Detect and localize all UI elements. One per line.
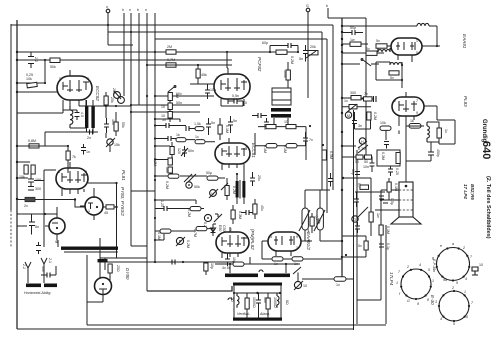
svg-text:G: G: [407, 299, 410, 303]
capacitor 10n bus bottom: [363, 157, 375, 172]
capacitor hablkg: [41, 266, 56, 278]
svg-text:0,7M: 0,7M: [167, 58, 175, 62]
resistor 500k vert: [283, 62, 290, 88]
wire bus y60: [17, 59, 232, 61]
resistor 300 bus2: [342, 91, 371, 100]
antenna arrow sym1: [22, 262, 31, 283]
svg-text:E-P-40: E-P-40: [432, 259, 436, 270]
svg-text:ECC92: ECC92: [95, 86, 100, 101]
node terminal G: [306, 8, 310, 12]
capacitor y140: [163, 136, 176, 141]
wire VDR bottom: [301, 230, 342, 241]
svg-text:1: 1: [396, 281, 398, 285]
wire eaa912 drop: [262, 241, 291, 259]
svg-text:10k: 10k: [26, 77, 32, 81]
svg-text:55k: 55k: [121, 122, 125, 128]
capacitor 50n variable: [181, 146, 194, 157]
svg-text:0,7: 0,7: [357, 183, 361, 188]
wire stub y45: [108, 44, 133, 46]
yoke H bars small: [26, 284, 57, 288]
wire row6: [155, 224, 216, 231]
transformer T1 core bars: [85, 100, 95, 134]
capacitor below box: [388, 166, 399, 176]
coil eaa91 left: [378, 48, 390, 52]
svg-text:50p: 50p: [350, 26, 356, 30]
svg-text:1w: 1w: [350, 38, 355, 42]
coil L-top-right: [417, 23, 429, 26]
svg-text:10x: 10x: [176, 92, 182, 96]
svg-text:B52;R6: B52;R6: [470, 184, 475, 200]
wire x227 drop to tube: [227, 52, 228, 68]
transformer T3 bars: [236, 170, 246, 204]
svg-text:640: 640: [480, 141, 492, 159]
resistor 50k top-left: [50, 58, 60, 69]
wire vert bus v1: [123, 13, 125, 96]
resistor 0.7M vert row4: [225, 186, 236, 196]
svg-text:300: 300: [350, 91, 356, 95]
capacitor small y128: [186, 126, 195, 131]
wire y240 row: [155, 234, 164, 240]
wire x116 drop: [116, 183, 118, 258]
wire right inner frame x353: [353, 110, 355, 330]
svg-text:1x: 1x: [336, 283, 340, 287]
resistor oval 1x: [195, 135, 205, 144]
wire row y140 links: [155, 139, 215, 142]
wire row4 links: [218, 178, 228, 200]
potentiometer 20k circles: [112, 88, 124, 103]
resistor 1500 vbox a: [245, 293, 256, 318]
potentiometer 15k: [106, 138, 120, 147]
capacitor C17: [81, 144, 90, 155]
svg-text:50: 50: [355, 160, 359, 164]
svg-text:9: 9: [59, 77, 61, 81]
resistor 0.2M oval row6: [193, 227, 207, 238]
svg-text:4: 4: [419, 263, 421, 267]
wire speaker col x381: [380, 195, 382, 300]
wire output transformer loop: [406, 106, 455, 144]
svg-text:40n: 40n: [41, 266, 45, 272]
svg-text:1,5k: 1,5k: [194, 122, 201, 126]
flyback core bar B: [264, 274, 290, 278]
wire pl81 to x116: [88, 182, 117, 184]
svg-text:5x: 5x: [358, 244, 362, 248]
wire stub x381 bottom: [357, 299, 381, 301]
svg-text:10: 10: [303, 284, 307, 288]
capacitor 0.5u b: [383, 198, 394, 205]
wire top right feed: [342, 25, 417, 27]
svg-text:2,1: 2,1: [48, 258, 52, 263]
potentiometer 0.2M row5: [203, 214, 222, 230]
svg-text:h: h: [122, 8, 124, 12]
wire x68 down: [67, 146, 69, 173]
svg-text:50μ: 50μ: [206, 171, 212, 175]
wire x371 col: [370, 178, 372, 212]
SECTION: tubes: [49, 38, 440, 300]
wire bottom inner line: [87, 324, 386, 326]
svg-text:300: 300: [35, 187, 41, 191]
resistor 0.2M right col: [367, 112, 377, 120]
yoke H coil bar: [61, 247, 118, 253]
svg-text:Vertikal-: Vertikal-: [237, 312, 251, 316]
svg-text:4: 4: [465, 277, 467, 281]
svg-text:50k: 50k: [50, 65, 56, 69]
potentiometer 20k pcf: [306, 45, 318, 58]
svg-text:2: 2: [245, 76, 247, 80]
diode E50C50: [211, 224, 227, 236]
wire cascade right vertical 3: [326, 39, 328, 213]
flyback link arcs: [228, 270, 263, 300]
svg-text:9: 9: [296, 235, 298, 239]
svg-text:n: n: [129, 8, 131, 12]
capacitor right col c: [355, 222, 360, 233]
tube ECC81 upper envelope: [214, 68, 250, 106]
wire y178 right: [343, 177, 371, 179]
svg-text:8: 8: [217, 145, 219, 149]
resistor 50k oval row4: [165, 174, 179, 189]
transformer T2 winding box: [272, 88, 291, 105]
resistor 5x right of eaa912: [310, 213, 321, 233]
capacitor 7x: [303, 132, 313, 146]
resistor 5x lower right: [358, 236, 368, 257]
resistor stack 10k b: [161, 112, 172, 119]
svg-text:2: 2: [394, 99, 396, 103]
svg-text:10: 10: [284, 120, 288, 124]
wire py83-2 links: [17, 207, 57, 226]
svg-text:17LP4: 17LP4: [389, 272, 394, 286]
coil L osc: [70, 106, 73, 128]
resistor 0.2M oval row5: [187, 207, 201, 218]
wire cascade right vertical 2: [321, 32, 323, 190]
wire y113 ext: [17, 112, 63, 114]
svg-text:7: 7: [216, 76, 218, 80]
svg-text:9a: 9a: [443, 278, 447, 282]
svg-text:Abwg.: Abwg.: [259, 312, 270, 316]
svg-text:5x: 5x: [390, 76, 394, 80]
resistor 1w right col: [369, 212, 380, 236]
svg-text:25k: 25k: [110, 97, 114, 103]
svg-text:4: 4: [440, 317, 442, 321]
resistor oval bt1: [272, 257, 283, 266]
wire osc loop: [63, 106, 93, 132]
coil output primary: [427, 122, 429, 142]
capacitor 300p pl81: [28, 187, 41, 192]
tube PL81 envelope: [56, 162, 88, 196]
wire y146 row: [155, 145, 170, 147]
svg-text:17 LP4: 17 LP4: [463, 184, 468, 199]
svg-text:1x: 1x: [274, 262, 278, 266]
wire row5: [155, 205, 233, 224]
resistor 2M mid: [166, 45, 176, 54]
wire rows a: [258, 126, 306, 128]
capacitor 5n pcf: [299, 45, 308, 62]
wire right vert x387: [385, 225, 387, 324]
tube PL83 envelope: [392, 92, 437, 122]
resistor 30k bottom-left2: [31, 165, 35, 174]
capacitor 10u top right: [351, 169, 360, 175]
wire cascade right vertical 1: [332, 25, 334, 190]
svg-text:M: M: [347, 114, 350, 118]
svg-text:1: 1: [416, 39, 418, 43]
wire main left bus: [16, 20, 18, 329]
resistor 1x output: [437, 128, 448, 138]
svg-text:120: 120: [177, 148, 181, 154]
svg-text:4,5: 4,5: [80, 112, 84, 117]
svg-text:0,2M: 0,2M: [373, 112, 377, 120]
svg-text:⇒EAA91/2: ⇒EAA91/2: [306, 228, 311, 250]
wire bus y52: [17, 51, 295, 53]
svg-text:0,2M: 0,2M: [232, 186, 236, 194]
capacitor hatch T2: [264, 118, 269, 129]
bus x342 node dots: [341, 25, 343, 27]
svg-text:9: 9: [416, 111, 418, 115]
SECTION: components: [16, 24, 455, 321]
wire bottom border: [17, 328, 354, 330]
svg-text:5: 5: [428, 268, 430, 272]
svg-text:2,2: 2,2: [34, 57, 38, 62]
node terminal a1: [106, 9, 110, 13]
svg-text:1: 1: [464, 290, 466, 294]
wire speaker col top: [405, 161, 407, 175]
resistor 0.2M pcf: [276, 50, 294, 64]
resistor 120 vert: [170, 142, 181, 160]
resistor 2x pl81: [17, 197, 85, 208]
svg-text:10: 10: [479, 263, 483, 267]
svg-text:0,1M: 0,1M: [225, 125, 229, 133]
node dots mid: [105, 105, 107, 107]
wire vert bus v2: [130, 13, 132, 246]
wire pcf links: [270, 46, 298, 53]
wire pl81 pins: [17, 170, 56, 196]
svg-text:0,1M: 0,1M: [386, 226, 390, 234]
wire right inner frame x357: [356, 150, 358, 324]
svg-text:0,25: 0,25: [26, 73, 33, 77]
capacitor 50p bus: [342, 26, 363, 35]
svg-text:n: n: [145, 8, 147, 12]
capacitor 5n pl81k: [29, 217, 39, 231]
svg-text:0,5μ: 0,5μ: [390, 198, 394, 205]
svg-text:0,25: 0,25: [395, 168, 399, 175]
svg-text:10: 10: [161, 105, 165, 109]
wire top right link: [328, 17, 366, 19]
wire horiz y291 heavy: [147, 286, 232, 291]
resistor 25k right col: [104, 96, 114, 105]
resistor 1k row a2: [284, 120, 296, 129]
svg-text:500k: 500k: [283, 70, 287, 78]
svg-text:2M: 2M: [167, 45, 172, 49]
svg-text:45k: 45k: [201, 73, 207, 77]
svg-text:8Ω: 8Ω: [285, 300, 289, 305]
wire y112 row: [131, 111, 200, 113]
node A cascade joins: [309, 125, 311, 127]
capacitor 400p: [104, 118, 115, 133]
svg-text:6: 6: [466, 315, 468, 319]
svg-text:5: 5: [453, 322, 455, 326]
resistor 0.1M oval b2: [283, 144, 297, 154]
resistor 50 right edge b: [364, 155, 372, 164]
resistor 45k: [196, 64, 207, 84]
svg-text:4x 5x: 4x 5x: [222, 266, 231, 270]
capacitor dashed line: [36, 242, 41, 254]
svg-text:Grundig: Grundig: [481, 119, 487, 143]
wire dy80 bottom: [87, 295, 103, 303]
svg-text:0,2M: 0,2M: [290, 56, 294, 64]
svg-text:5: 5: [85, 170, 87, 174]
svg-text:b: b: [326, 4, 328, 8]
svg-text:G: G: [56, 240, 59, 244]
svg-text:0,2M: 0,2M: [165, 181, 169, 189]
svg-text:G: G: [353, 218, 356, 222]
capacitor 150p row5: [241, 210, 255, 215]
resistor stack 10k a: [161, 103, 172, 110]
switch S1: [342, 59, 379, 66]
capacitor 250 right of T3: [250, 172, 261, 186]
svg-text:5n: 5n: [233, 119, 237, 123]
wire y159 row: [155, 155, 172, 166]
capacitor C 4.5n: [75, 110, 85, 120]
svg-text:5n: 5n: [211, 121, 215, 125]
wire pl83 cathode col: [386, 120, 406, 161]
svg-text:6: 6: [87, 77, 89, 81]
wire y262 bottom mid: [100, 261, 235, 263]
antenna arrow sym2: [41, 258, 52, 283]
resistor pl83 left oval: [380, 121, 391, 130]
resistor 0.7 right: [357, 183, 369, 189]
tube DY80 envelope: [95, 278, 112, 301]
capacitor 60p pcf: [262, 41, 298, 48]
wire y106 ext: [93, 105, 131, 107]
wire oval to bus: [346, 278, 353, 280]
svg-text:3: 3: [58, 170, 60, 174]
capacitor 0.5u a: [354, 192, 359, 207]
svg-text:2: 2: [406, 265, 409, 269]
wire x45 down: [44, 132, 46, 146]
wire pl81 cathode: [17, 214, 57, 235]
capacitor spk col c: [379, 243, 390, 253]
svg-text:0,1M: 0,1M: [394, 183, 398, 191]
node dots y176: [154, 175, 156, 177]
svg-text:5n: 5n: [35, 225, 39, 229]
row6: resistor 10k oval: [157, 229, 171, 240]
wire right col links: [106, 92, 116, 152]
wire y258 bottom mid: [100, 257, 147, 259]
socket A circle: [432, 242, 473, 285]
resistor 50 right edge a: [355, 155, 363, 164]
resistor 1w bus: [342, 38, 368, 46]
row5: capacitor 0.25u: [158, 200, 173, 211]
box IF unit: [377, 150, 400, 166]
svg-text:1x: 1x: [195, 135, 199, 139]
wire vert bus v4 long: [146, 13, 148, 291]
wire y155 stub: [17, 161, 30, 163]
wire y65: [147, 64, 232, 66]
wire dy80 top bar: [98, 238, 108, 278]
svg-text:50n: 50n: [188, 149, 194, 153]
wire vert bus v3: [138, 13, 140, 105]
svg-text:3n: 3n: [358, 124, 362, 128]
svg-text:10n: 10n: [363, 165, 369, 169]
svg-text:5n: 5n: [299, 57, 303, 61]
wire y176 row: [155, 175, 207, 177]
capacitor spk col a: [379, 190, 384, 199]
wire eaa91 right pin: [422, 26, 437, 46]
svg-text:PL81: PL81: [121, 170, 126, 181]
svg-text:5x: 5x: [366, 47, 370, 51]
svg-text:1: 1: [296, 246, 298, 250]
resistor 7x right edge: [361, 92, 376, 102]
resistor 5x eaa91: [376, 39, 387, 48]
svg-text:1k: 1k: [410, 119, 414, 123]
capacitor C 2.2n left: [28, 52, 38, 68]
capacitor 450p: [406, 142, 440, 161]
svg-text:10n: 10n: [210, 88, 216, 92]
wire vbox mid: [234, 292, 281, 294]
wire eaa91 lower links: [376, 62, 402, 88]
resistor pl83 screen oval: [409, 119, 421, 128]
svg-text:1x: 1x: [444, 129, 448, 133]
capacitor pl83 left k: [384, 142, 389, 149]
svg-text:2: 2: [451, 286, 454, 290]
resistor 7k oval row4: [206, 171, 218, 180]
wire y264 right of flyback: [215, 263, 300, 265]
svg-text:0,1μ: 0,1μ: [386, 243, 390, 250]
capacitor y262: [172, 260, 175, 265]
svg-text:60p: 60p: [262, 41, 268, 45]
resistor 0.1M spk col b: [379, 220, 390, 243]
potentiometer arrows row4: [184, 174, 200, 189]
wire right col links2: [342, 141, 373, 157]
resistor 0.5M vert mid: [322, 150, 333, 160]
resistor 10k 0.25 left: [26, 73, 37, 88]
svg-text:10n: 10n: [165, 167, 169, 173]
svg-text:0,8M: 0,8M: [28, 139, 36, 143]
resistor oval flyback: [222, 262, 244, 270]
svg-text:0,2M: 0,2M: [187, 209, 191, 217]
wire dashed border left: [10, 210, 12, 248]
potentiometer 10 bottom: [293, 267, 307, 290]
svg-text:1k: 1k: [176, 133, 180, 137]
resistor oval 1x bottom: [334, 277, 346, 287]
resistor 5x bus: [342, 47, 384, 55]
svg-text:C50: C50: [222, 225, 226, 232]
svg-text:1x: 1x: [344, 99, 348, 103]
wire right vert x366: [365, 18, 367, 160]
resistor stack 1M: [168, 93, 179, 101]
resistor 10n lower: [165, 167, 172, 173]
svg-text:2x: 2x: [24, 204, 28, 208]
svg-text:10μ: 10μ: [351, 169, 355, 175]
capacitor 10u row6: [225, 253, 236, 266]
node dots rows: [154, 95, 156, 97]
svg-text:e: e: [440, 244, 442, 248]
resistor 0.3M vert in box: [396, 153, 400, 164]
row y125 wire: [155, 125, 186, 127]
svg-text:9: 9: [417, 302, 419, 306]
socket C circle: [430, 286, 474, 326]
wire terminal G drop: [307, 12, 309, 98]
potentiometer 0.3M arrow: [358, 145, 368, 153]
capacitor 0.5n right: [228, 94, 247, 105]
wire VDR top: [305, 190, 330, 208]
svg-text:20k: 20k: [310, 45, 316, 49]
tube PY83 envelope: [80, 197, 103, 220]
tube EAA91 envelope: [384, 38, 440, 62]
svg-text:7: 7: [393, 39, 395, 43]
wire top bus B+: [11, 24, 333, 26]
svg-text:2: 2: [230, 228, 232, 232]
resistor 0.7M mid: [166, 58, 176, 67]
resistor 7k vert: [66, 151, 76, 160]
capacitor 100p pl81: [28, 174, 41, 186]
